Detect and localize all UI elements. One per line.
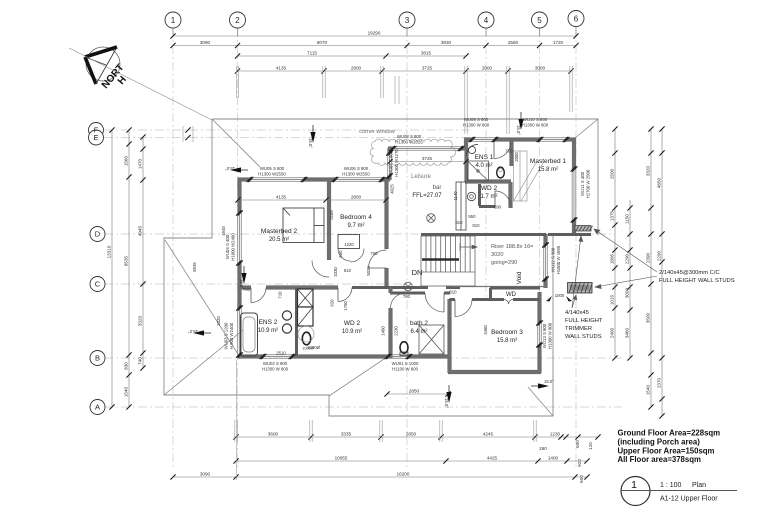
roof hip bottom-right [528, 387, 553, 416]
svg-text:1750: 1750 [343, 301, 348, 311]
wall Bedroom3 left [447, 299, 451, 373]
ENS2 cabinet top [298, 289, 314, 307]
hatched trimmer stud block [568, 283, 593, 294]
svg-text:WU04 S 400: WU04 S 400 [225, 234, 230, 259]
wardrobe Masterbed1 [514, 151, 544, 201]
interior horizontal small dims [243, 149, 565, 356]
window WU02 [262, 355, 293, 359]
svg-text:H1300 W2550: H1300 W2550 [342, 172, 370, 177]
grid bubbles A-F [89, 123, 106, 415]
basins ENS2 [282, 311, 291, 320]
svg-text:B: B [95, 354, 100, 363]
svg-text:Upper Floor Area=150sqm: Upper Floor Area=150sqm [618, 446, 715, 455]
interior dim 2850 porch [387, 393, 448, 395]
left dimension column 1560/8535/830/1540 [128, 130, 130, 407]
stair walk arrow [460, 243, 477, 251]
svg-text:H1300 W 800: H1300 W 800 [522, 123, 549, 128]
left small tick pair near F/E [183, 126, 193, 142]
wall interior ENS2/WD2 divider [295, 288, 298, 356]
svg-text:A1-12 Upper Floor: A1-12 Upper Floor [660, 496, 718, 503]
toilet ENS2 [302, 332, 310, 345]
svg-text:ENS 2: ENS 2 [259, 319, 278, 326]
WD2 small bottom wall [479, 205, 495, 208]
toilet ENS1 [497, 167, 505, 178]
svg-text:760: 760 [370, 251, 378, 256]
right dimension column 4650/2290/2370 [661, 129, 663, 416]
svg-text:4025: 4025 [390, 184, 395, 194]
svg-text:15.8 m²: 15.8 m² [538, 167, 558, 173]
window WU05 [249, 178, 305, 182]
svg-text:H1100 W 800: H1100 W 800 [392, 367, 419, 372]
svg-text:4.0 m²: 4.0 m² [475, 163, 492, 169]
svg-text:Plan: Plan [692, 482, 706, 489]
svg-text:corner window: corner window [359, 129, 394, 135]
wall interior Masterbed2/Bedroom4 divider [327, 181, 331, 260]
roof hip top-left [212, 119, 260, 167]
svg-text:ENS 1: ENS 1 [475, 154, 494, 161]
stairs [421, 236, 475, 286]
svg-text:WU03 S 1200: WU03 S 1200 [224, 322, 229, 349]
door Bedroom4 closet left [338, 249, 351, 262]
svg-text:bath 2: bath 2 [410, 320, 428, 327]
svg-text:2510: 2510 [276, 351, 286, 356]
svg-text:8535: 8535 [192, 262, 197, 272]
svg-text:3460: 3460 [624, 327, 629, 338]
door ENS1 entry [494, 142, 511, 159]
wall under void thin [450, 286, 546, 288]
revision cloud corner window [370, 139, 455, 165]
svg-text:810: 810 [449, 290, 457, 295]
svg-text:4135: 4135 [276, 65, 287, 70]
door Bedroom4 closet right [351, 249, 365, 263]
svg-text:1470: 1470 [137, 158, 142, 169]
leader lines from trimmer note [572, 236, 583, 308]
svg-text:1540: 1540 [645, 384, 650, 395]
top dimension row 7115/3815 [238, 55, 467, 57]
svg-text:3600: 3600 [268, 431, 279, 436]
svg-text:10.9 m²: 10.9 m² [342, 329, 362, 335]
svg-text:2560: 2560 [508, 40, 519, 45]
window end ticks [236, 137, 577, 359]
svg-text:740: 740 [137, 357, 142, 365]
svg-text:2850: 2850 [409, 388, 420, 393]
svg-text:E: E [93, 133, 98, 142]
ENS2 cabinet bottom [298, 307, 314, 326]
interior rotated small dims [192, 152, 519, 336]
bottom dim guide stubs [235, 360, 536, 480]
roof valley bottom-centre [329, 357, 387, 396]
svg-text:1460: 1460 [381, 326, 386, 336]
svg-text:4/140x45: 4/140x45 [565, 310, 589, 316]
wall jog at x466 [464, 138, 468, 150]
wall Masterbed1 bottom [548, 233, 591, 236]
floor drain landing [404, 282, 413, 291]
title line [621, 490, 737, 492]
svg-text:Void: Void [516, 271, 523, 284]
svg-text:WU02 S 800: WU02 S 800 [263, 361, 288, 366]
svg-text:H1300 W 800: H1300 W 800 [548, 322, 553, 349]
corner basin ENS1 [466, 144, 478, 156]
right dimension column 3320/2390/3500/1540 [650, 129, 652, 407]
svg-text:1400: 1400 [548, 455, 559, 460]
svg-text:16200: 16200 [397, 471, 410, 476]
svg-text:3090: 3090 [200, 40, 211, 45]
section leader line through north arrow [69, 48, 212, 120]
svg-text:1: 1 [631, 479, 637, 491]
svg-text:WU05 S 800: WU05 S 800 [260, 166, 285, 171]
wall interior Bedroom4 right / Leisure [384, 181, 388, 249]
svg-text:830: 830 [123, 362, 128, 370]
window label WU12 [551, 247, 556, 272]
svg-text:1000: 1000 [555, 293, 565, 298]
svg-text:WALL STUDS: WALL STUDS [565, 334, 602, 340]
wall interior corridor y287.5 [238, 285, 251, 289]
svg-text:9.7 m²: 9.7 m² [347, 223, 364, 229]
svg-text:15.0°: 15.0° [239, 279, 244, 289]
toilet bath2 [400, 342, 408, 354]
svg-text:3320: 3320 [216, 316, 221, 326]
svg-text:WD 2: WD 2 [481, 185, 498, 192]
wall Void right [543, 234, 547, 245]
svg-text:15.0°: 15.0° [188, 329, 198, 334]
svg-text:120: 120 [588, 442, 593, 450]
svg-text:1720: 1720 [553, 40, 564, 45]
WD2 small left wall [478, 184, 481, 206]
svg-text:4245: 4245 [483, 431, 494, 436]
wall right of Masterbed1 [572, 138, 576, 169]
svg-text:2290: 2290 [624, 253, 629, 264]
svg-text:1140: 1140 [453, 191, 458, 201]
svg-text:600: 600 [579, 475, 584, 483]
window label WU04 [225, 234, 230, 259]
svg-text:FULL HEIGHT: FULL HEIGHT [565, 318, 603, 324]
svg-text:H1300 W1270: H1300 W1270 [394, 149, 399, 177]
svg-text:3725: 3725 [422, 156, 433, 161]
svg-text:810: 810 [472, 223, 480, 228]
svg-text:1030: 1030 [333, 267, 338, 277]
svg-text:2390: 2390 [645, 252, 650, 263]
svg-text:760: 760 [505, 149, 513, 154]
ENS1 left wall [464, 148, 468, 182]
window WU11 [572, 168, 576, 221]
svg-text:1895: 1895 [609, 253, 614, 264]
roof slope arrows 15.0deg [188, 112, 555, 408]
wall stair hall top [421, 233, 546, 236]
door Bedroom4 entry [369, 250, 387, 268]
svg-text:890: 890 [494, 205, 502, 210]
bottom dimension row 3600/3335/2850/4245/1230 [236, 436, 598, 438]
svg-text:Riser 188.8x 16=: Riser 188.8x 16= [491, 244, 533, 250]
svg-text:going=290: going=290 [491, 260, 517, 266]
interior dim 4135/2800 [238, 199, 386, 201]
svg-text:4135: 4135 [276, 194, 287, 199]
window WU12 [544, 243, 548, 280]
svg-text:15.0°: 15.0° [308, 138, 313, 148]
svg-text:WD: WD [506, 292, 517, 298]
svg-text:2850: 2850 [406, 431, 417, 436]
svg-text:FFL=27.07: FFL=27.07 [412, 193, 442, 199]
svg-text:H1800 W 1895: H1800 W 1895 [556, 245, 561, 274]
window WU08 corner window [392, 147, 462, 151]
svg-text:15.8 m²: 15.8 m² [497, 338, 517, 344]
interior dim 3725 leisure [390, 161, 466, 163]
svg-text:(including Porch area): (including Porch area) [618, 438, 701, 447]
svg-text:Ground Floor Area=228sqm: Ground Floor Area=228sqm [618, 429, 721, 438]
svg-text:550: 550 [338, 250, 343, 258]
svg-text:DN: DN [412, 268, 423, 277]
svg-text:20.5 m²: 20.5 m² [269, 237, 289, 243]
svg-text:H1300 W 800: H1300 W 800 [463, 123, 490, 128]
svg-text:Masterbed 1: Masterbed 1 [530, 158, 567, 165]
window WU04 [238, 213, 242, 263]
svg-text:C: C [95, 280, 101, 289]
window WU07 vertical [387, 148, 391, 153]
svg-text:15.0°: 15.0° [544, 379, 554, 384]
svg-text:920: 920 [330, 299, 335, 307]
svg-text:WU09 S 800: WU09 S 800 [464, 117, 489, 122]
svg-text:1000Ø: 1000Ø [307, 345, 321, 350]
window WU01 [387, 355, 410, 359]
top dimension row 4135/2800/3725/2000/3000 [238, 70, 572, 72]
left dimension column 1470/4945/3320/740 [142, 137, 144, 368]
svg-text:2: 2 [235, 16, 240, 25]
roof hip top-right [575, 119, 598, 138]
WD2 small right wall [508, 182, 512, 208]
svg-text:Masterbed 2: Masterbed 2 [261, 228, 298, 235]
roof outline [164, 119, 598, 416]
svg-text:550: 550 [468, 214, 476, 219]
svg-text:H1300 W 800: H1300 W 800 [262, 367, 289, 372]
wall Bedroom3 bottom [448, 370, 541, 374]
svg-text:H1000 W2400: H1000 W2400 [231, 233, 236, 261]
wall left exterior [237, 178, 241, 214]
svg-text:1375: 1375 [609, 210, 614, 221]
door ENS2 entry [251, 288, 266, 303]
svg-text:WU08 S 800: WU08 S 800 [397, 134, 422, 139]
svg-text:3000: 3000 [535, 65, 546, 70]
window label WU11 [580, 171, 585, 196]
svg-text:15.0°: 15.0° [516, 125, 521, 135]
svg-text:WU01 S 1000: WU01 S 1000 [392, 361, 419, 366]
svg-text:H 900 W2400: H 900 W2400 [229, 322, 234, 349]
svg-text:Bedroom 3: Bedroom 3 [491, 329, 523, 336]
svg-text:2/140x45@300mm C/C: 2/140x45@300mm C/C [659, 270, 720, 276]
svg-text:1560: 1560 [123, 155, 128, 166]
svg-text:4425: 4425 [487, 455, 498, 460]
svg-text:3830: 3830 [441, 40, 452, 45]
wall top of Masterbed2/Bedroom4 [238, 177, 250, 181]
svg-text:TRIMMER: TRIMMER [565, 326, 592, 332]
svg-text:1 : 100: 1 : 100 [660, 482, 682, 489]
top dim guide stubs [236, 66, 572, 134]
WD closet walls [490, 287, 540, 290]
svg-text:4945: 4945 [221, 226, 226, 236]
window WU13 [538, 322, 542, 346]
svg-text:WU06 S 800: WU06 S 800 [344, 166, 369, 171]
svg-text:260: 260 [539, 446, 547, 451]
bottom small labels 260/600/120/920 [539, 440, 593, 483]
svg-text:15.0°: 15.0° [225, 166, 235, 171]
svg-text:600: 600 [575, 440, 580, 448]
svg-text:10.9 m²: 10.9 m² [258, 328, 278, 334]
svg-text:1230: 1230 [550, 431, 561, 436]
bathtub ENS2 [241, 313, 258, 356]
svg-text:4945: 4945 [137, 225, 142, 236]
bar counter [456, 182, 466, 230]
ENS1 bottom wall [465, 179, 511, 183]
svg-text:810: 810 [344, 268, 352, 273]
svg-text:1150: 1150 [624, 214, 629, 224]
bottom dimension row 10055/4425/1400 [236, 460, 587, 462]
svg-text:H1300 W2025: H1300 W2025 [395, 140, 423, 145]
svg-text:1015: 1015 [609, 294, 614, 305]
wall Bedroom3 top [450, 298, 456, 301]
top dimension row 3090/8070/3830/2560/1720 [173, 45, 576, 47]
door opening 1000 arrows [546, 296, 572, 302]
svg-text:13310: 13310 [106, 245, 111, 258]
floor drain Leisure [427, 214, 436, 223]
bar sink [467, 192, 475, 200]
wall bottom exterior [238, 354, 263, 358]
svg-text:3815: 3815 [421, 50, 432, 55]
window WU03 [238, 308, 242, 355]
bottom dimension row 3090/16200 [173, 476, 587, 478]
svg-text:3: 3 [405, 16, 410, 25]
svg-text:3320: 3320 [137, 315, 142, 326]
north arrow [85, 47, 129, 91]
svg-text:3725: 3725 [422, 65, 433, 70]
svg-text:2000: 2000 [482, 65, 493, 70]
svg-text:3500: 3500 [645, 312, 650, 323]
svg-text:2400: 2400 [609, 327, 614, 338]
svg-text:WU11 S 400: WU11 S 400 [580, 171, 585, 196]
svg-text:WU10 S 800: WU10 S 800 [523, 117, 548, 122]
svg-text:19290: 19290 [368, 30, 381, 35]
svg-text:3335: 3335 [341, 431, 352, 436]
svg-text:3020: 3020 [491, 252, 503, 258]
svg-text:2500: 2500 [609, 168, 614, 179]
ENS1/Masterbed1 divider [509, 140, 513, 166]
svg-text:920: 920 [577, 459, 582, 467]
shower bath2 [419, 325, 444, 354]
leader lines to stud blocks [594, 229, 657, 289]
svg-text:3320: 3320 [645, 165, 650, 176]
door WD closet [504, 300, 509, 305]
window label WU03 [224, 322, 229, 349]
right dimension column 1150/2290/3000/3460 [629, 200, 631, 358]
svg-text:5: 5 [537, 16, 542, 25]
svg-text:1: 1 [171, 16, 176, 25]
svg-text:All Floor area=378sqm: All Floor area=378sqm [618, 455, 701, 464]
svg-text:1220: 1220 [344, 242, 354, 247]
door Masterbed2 entry [312, 261, 329, 278]
svg-text:2230: 2230 [394, 326, 399, 336]
wall top of Leisure corner window [388, 146, 393, 150]
svg-text:5030: 5030 [366, 266, 371, 276]
svg-text:bar: bar [433, 185, 442, 191]
svg-text:3460: 3460 [483, 325, 488, 335]
svg-text:D: D [95, 230, 101, 239]
title mark circle [621, 477, 650, 506]
svg-text:15.0°: 15.0° [444, 398, 449, 408]
window label WU07 [389, 150, 394, 175]
right dimension column 2500/1375/1895/1015/2400 [614, 129, 616, 358]
svg-text:2800: 2800 [351, 194, 362, 199]
wall interior x390 [388, 288, 392, 294]
svg-text:710: 710 [278, 291, 283, 299]
bed Masterbed2 [283, 208, 324, 243]
wall Bedroom3 right [537, 292, 541, 323]
wall top of ENS1/Masterbed1 [464, 137, 472, 141]
svg-text:6: 6 [574, 14, 579, 23]
door bath2 east [425, 293, 444, 312]
svg-text:7115: 7115 [307, 50, 317, 55]
svg-text:2370: 2370 [656, 377, 661, 388]
svg-text:WU13 S 800: WU13 S 800 [542, 323, 547, 348]
hatched wall band right of Masterbed1 [575, 226, 593, 232]
svg-text:4: 4 [484, 16, 489, 25]
grid line horizontals A-F [104, 130, 622, 407]
svg-text:6.4 m²: 6.4 m² [410, 329, 427, 335]
svg-text:10055: 10055 [335, 455, 348, 460]
door Bedroom3 entry [455, 300, 472, 317]
closet Bedroom4 [338, 235, 360, 249]
window WU10 [539, 138, 567, 142]
svg-text:1.7 m²: 1.7 m² [480, 194, 497, 200]
grid line verticals 1-6 [173, 28, 576, 470]
top dimension row 19290 [173, 35, 576, 37]
door bath2 west [391, 293, 406, 308]
window label WU13 [542, 323, 547, 348]
left dimension column 13310 [111, 130, 113, 407]
svg-text:760: 760 [403, 294, 411, 299]
svg-text:3185: 3185 [329, 210, 334, 220]
svg-text:3090: 3090 [200, 471, 211, 476]
svg-text:1540: 1540 [123, 386, 128, 397]
window WU06 [334, 178, 383, 182]
wall bath2 top [390, 292, 425, 295]
svg-text:2290: 2290 [656, 250, 661, 261]
svg-text:A: A [95, 403, 100, 412]
svg-text:8535: 8535 [123, 255, 128, 266]
svg-text:WD 2: WD 2 [344, 320, 361, 327]
door hall 810 [338, 288, 352, 302]
svg-text:2000: 2000 [514, 152, 519, 162]
svg-text:4650: 4650 [656, 177, 661, 188]
roof hip left lower [164, 330, 243, 395]
svg-text:2800: 2800 [351, 65, 362, 70]
svg-text:FULL HEIGHT WALL STUDS: FULL HEIGHT WALL STUDS [659, 278, 735, 284]
svg-text:H1300 W2550: H1300 W2550 [258, 172, 286, 177]
grid bubbles 1-6 [165, 11, 584, 37]
svg-text:8070: 8070 [317, 40, 328, 45]
svg-text:Leisure: Leisure [411, 174, 431, 180]
window WU09 [471, 138, 496, 142]
svg-text:3000: 3000 [624, 287, 629, 298]
svg-text:H1700 W 2500: H1700 W 2500 [586, 169, 591, 198]
svg-text:Bedroom 4: Bedroom 4 [340, 214, 372, 221]
svg-text:810: 810 [455, 220, 463, 225]
shower ENS1 [468, 161, 489, 181]
roof valley left upper [165, 240, 238, 354]
svg-text:WU12 S 300: WU12 S 300 [551, 247, 556, 272]
door WD2 small entry [495, 191, 511, 207]
